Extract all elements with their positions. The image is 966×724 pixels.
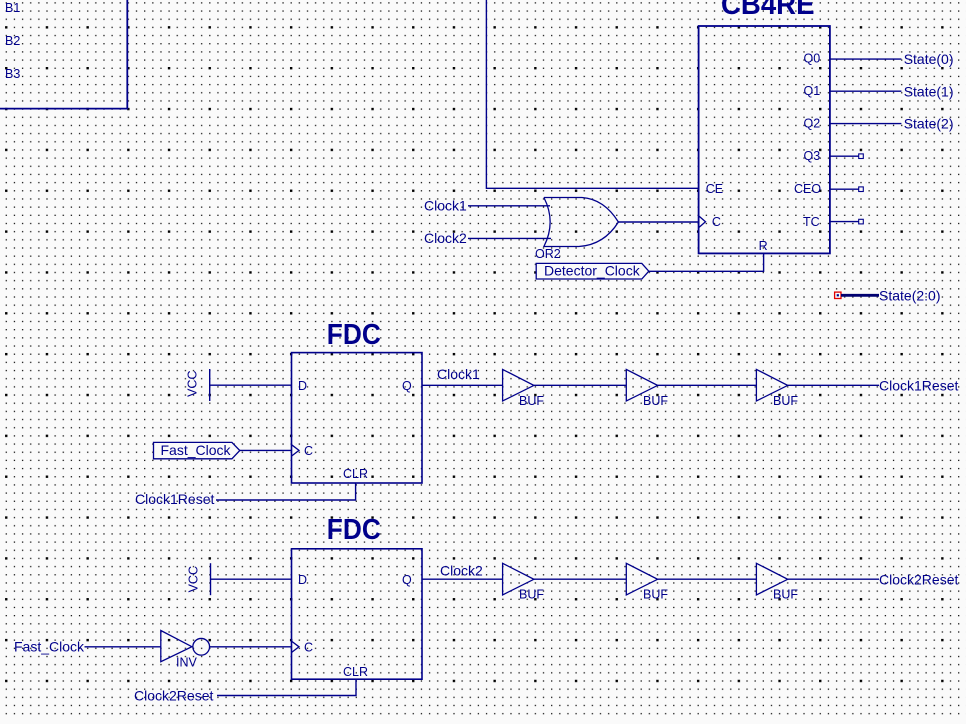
vcc symbol (FDC2) <box>210 563 212 595</box>
bus terminal red square State(2:0) <box>835 292 841 298</box>
svg-text:B1: B1 <box>5 1 20 15</box>
buffer BUF1 (row 1) <box>503 369 534 401</box>
wire INV to C (FDC2) <box>210 646 292 648</box>
svg-text:Clock1Reset: Clock1Reset <box>135 491 214 507</box>
svg-text:BUF: BUF <box>643 588 668 602</box>
terminal square CEO <box>859 187 864 192</box>
svg-text:FDC: FDC <box>327 319 381 351</box>
svg-text:BUF: BUF <box>773 394 798 408</box>
svg-text:CEO: CEO <box>794 182 821 196</box>
wire VCC to D (FDC2) <box>211 578 292 580</box>
svg-text:BUF: BUF <box>773 588 798 602</box>
wire TC stub <box>830 221 859 223</box>
svg-text:BUF: BUF <box>519 394 544 408</box>
wire VCC to D (FDC1) <box>210 384 292 386</box>
svg-text:Q1: Q1 <box>804 84 821 98</box>
svg-text:D: D <box>298 573 307 587</box>
buffer BUF4 (row 2) <box>503 563 534 595</box>
clock chevron on C pin of FDC2 <box>292 641 300 652</box>
wire BUF3 to Clock1Reset <box>788 384 879 386</box>
svg-text:C: C <box>304 444 313 458</box>
svg-text:Clock2: Clock2 <box>424 230 467 246</box>
wire Q (FDC2) to BUF4 <box>422 578 503 580</box>
clock chevron on C pin of FDC1 <box>292 445 300 456</box>
svg-text:Clock2: Clock2 <box>440 563 483 579</box>
svg-text:B3: B3 <box>5 67 20 81</box>
wire Q0 to State(0) <box>830 58 902 60</box>
svg-text:FDC: FDC <box>327 514 381 546</box>
svg-text:B2: B2 <box>5 34 20 48</box>
svg-text:CE: CE <box>706 182 723 196</box>
svg-text:Q: Q <box>402 573 412 587</box>
terminal square Q3 <box>859 154 864 159</box>
net flag Fast_Clock (FDC1) <box>154 442 240 458</box>
wire BUF2 to BUF3 <box>658 384 757 386</box>
clock chevron on C pin of CB4RE <box>699 216 706 228</box>
svg-text:VCC: VCC <box>187 566 201 592</box>
wire CLR return (FDC1) <box>216 483 356 500</box>
wire Clock1 to OR2 <box>468 205 550 207</box>
bus wire State(2:0) <box>841 294 879 297</box>
buffer BUF3 (row 1) <box>756 369 787 401</box>
wire Fast_Clock to C (FDC1) <box>240 449 292 451</box>
hierarchical block outline (top-left, partial) <box>0 0 127 109</box>
wire R to Detector_Clock <box>649 253 764 271</box>
wire Q2 to State(2) <box>830 123 902 125</box>
svg-text:VCC: VCC <box>186 370 200 396</box>
svg-text:Clock1: Clock1 <box>437 366 480 382</box>
or gate OR2 <box>544 198 619 247</box>
svg-text:Q3: Q3 <box>804 149 821 163</box>
wire CE net (vertical from top then right to CE pin) <box>486 0 698 188</box>
svg-text:CLR: CLR <box>343 467 368 481</box>
svg-text:Clock2Reset: Clock2Reset <box>134 687 213 703</box>
wire Q1 to State(1) <box>830 90 902 92</box>
svg-text:Detector_Clock: Detector_Clock <box>544 262 641 278</box>
wire BUF4 to BUF5 <box>534 578 626 580</box>
wire OR2 output to C pin <box>618 221 698 223</box>
terminal square TC <box>859 219 864 224</box>
buffer BUF5 (row 2) <box>626 563 657 595</box>
wire Fast_Clock to INV <box>85 646 161 648</box>
svg-text:Q2: Q2 <box>804 116 821 130</box>
svg-text:Clock1Reset: Clock1Reset <box>879 377 958 393</box>
wire BUF5 to BUF6 <box>658 578 757 580</box>
vcc symbol (FDC1) <box>209 369 211 401</box>
wire CEO stub <box>830 188 859 190</box>
svg-text:State(0): State(0) <box>904 51 954 67</box>
svg-text:Clock1: Clock1 <box>424 197 467 213</box>
svg-text:BUF: BUF <box>643 394 668 408</box>
net flag Detector_Clock <box>536 263 649 279</box>
svg-text:R: R <box>759 239 768 253</box>
flip-flop FDC1 body <box>292 353 423 483</box>
svg-text:CLR: CLR <box>343 665 368 679</box>
svg-text:State(2): State(2) <box>904 116 954 132</box>
counter CB4RE body <box>699 26 830 253</box>
svg-text:CB4RE: CB4RE <box>721 0 815 21</box>
buffer BUF6 (row 2) <box>756 563 787 595</box>
svg-text:State(2:0): State(2:0) <box>879 287 940 303</box>
svg-text:Q0: Q0 <box>804 51 821 65</box>
inverter INV <box>161 631 192 662</box>
flip-flop FDC2 body <box>292 549 423 679</box>
wire Q3 stub <box>830 155 859 157</box>
wire BUF6 to Clock2Reset <box>788 578 879 580</box>
svg-text:D: D <box>298 379 307 393</box>
svg-text:State(1): State(1) <box>904 83 954 99</box>
buffer BUF2 (row 1) <box>626 369 657 401</box>
svg-text:Fast_Clock: Fast_Clock <box>161 442 232 458</box>
wire Q (FDC1) to BUF1 <box>422 384 503 386</box>
svg-text:OR2: OR2 <box>535 247 561 261</box>
wire CLR return (FDC2) <box>217 679 356 696</box>
svg-text:C: C <box>712 215 721 229</box>
svg-text:TC: TC <box>803 215 820 229</box>
svg-text:INV: INV <box>176 655 198 669</box>
svg-text:BUF: BUF <box>519 588 544 602</box>
svg-text:C: C <box>304 640 313 654</box>
wire BUF1 to BUF2 <box>534 384 626 386</box>
svg-text:Clock2Reset: Clock2Reset <box>879 571 958 587</box>
svg-text:Q: Q <box>402 379 412 393</box>
wire Clock2 to OR2 <box>468 237 551 239</box>
svg-text:Fast_Clock: Fast_Clock <box>14 638 85 654</box>
